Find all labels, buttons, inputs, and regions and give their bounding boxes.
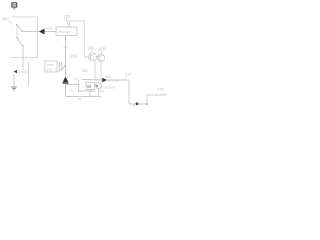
svg-text:230: 230 <box>157 87 164 92</box>
svg-text:ACDC: ACDC <box>46 27 53 31</box>
svg-text:170: 170 <box>46 68 52 72</box>
svg-text:190: 190 <box>87 46 95 51</box>
svg-text:IC2: IC2 <box>87 86 91 89</box>
svg-text:110: 110 <box>2 16 9 21</box>
svg-text:D3 C5 R8: D3 C5 R8 <box>108 80 119 83</box>
svg-text:180: 180 <box>81 69 87 73</box>
svg-text:215: 215 <box>100 89 105 93</box>
svg-text:210: 210 <box>125 73 131 77</box>
svg-text:PFC EMI: PFC EMI <box>59 30 71 34</box>
svg-text:200: 200 <box>105 75 111 79</box>
svg-text:150: 150 <box>70 54 78 59</box>
svg-text:220VAC: 220VAC <box>18 70 28 74</box>
svg-text:120: 120 <box>63 14 71 19</box>
svg-text:PWM: PWM <box>47 63 53 67</box>
svg-text:160: 160 <box>74 76 79 80</box>
svg-text:R1: R1 <box>70 88 74 92</box>
svg-text:200: 200 <box>99 47 107 52</box>
